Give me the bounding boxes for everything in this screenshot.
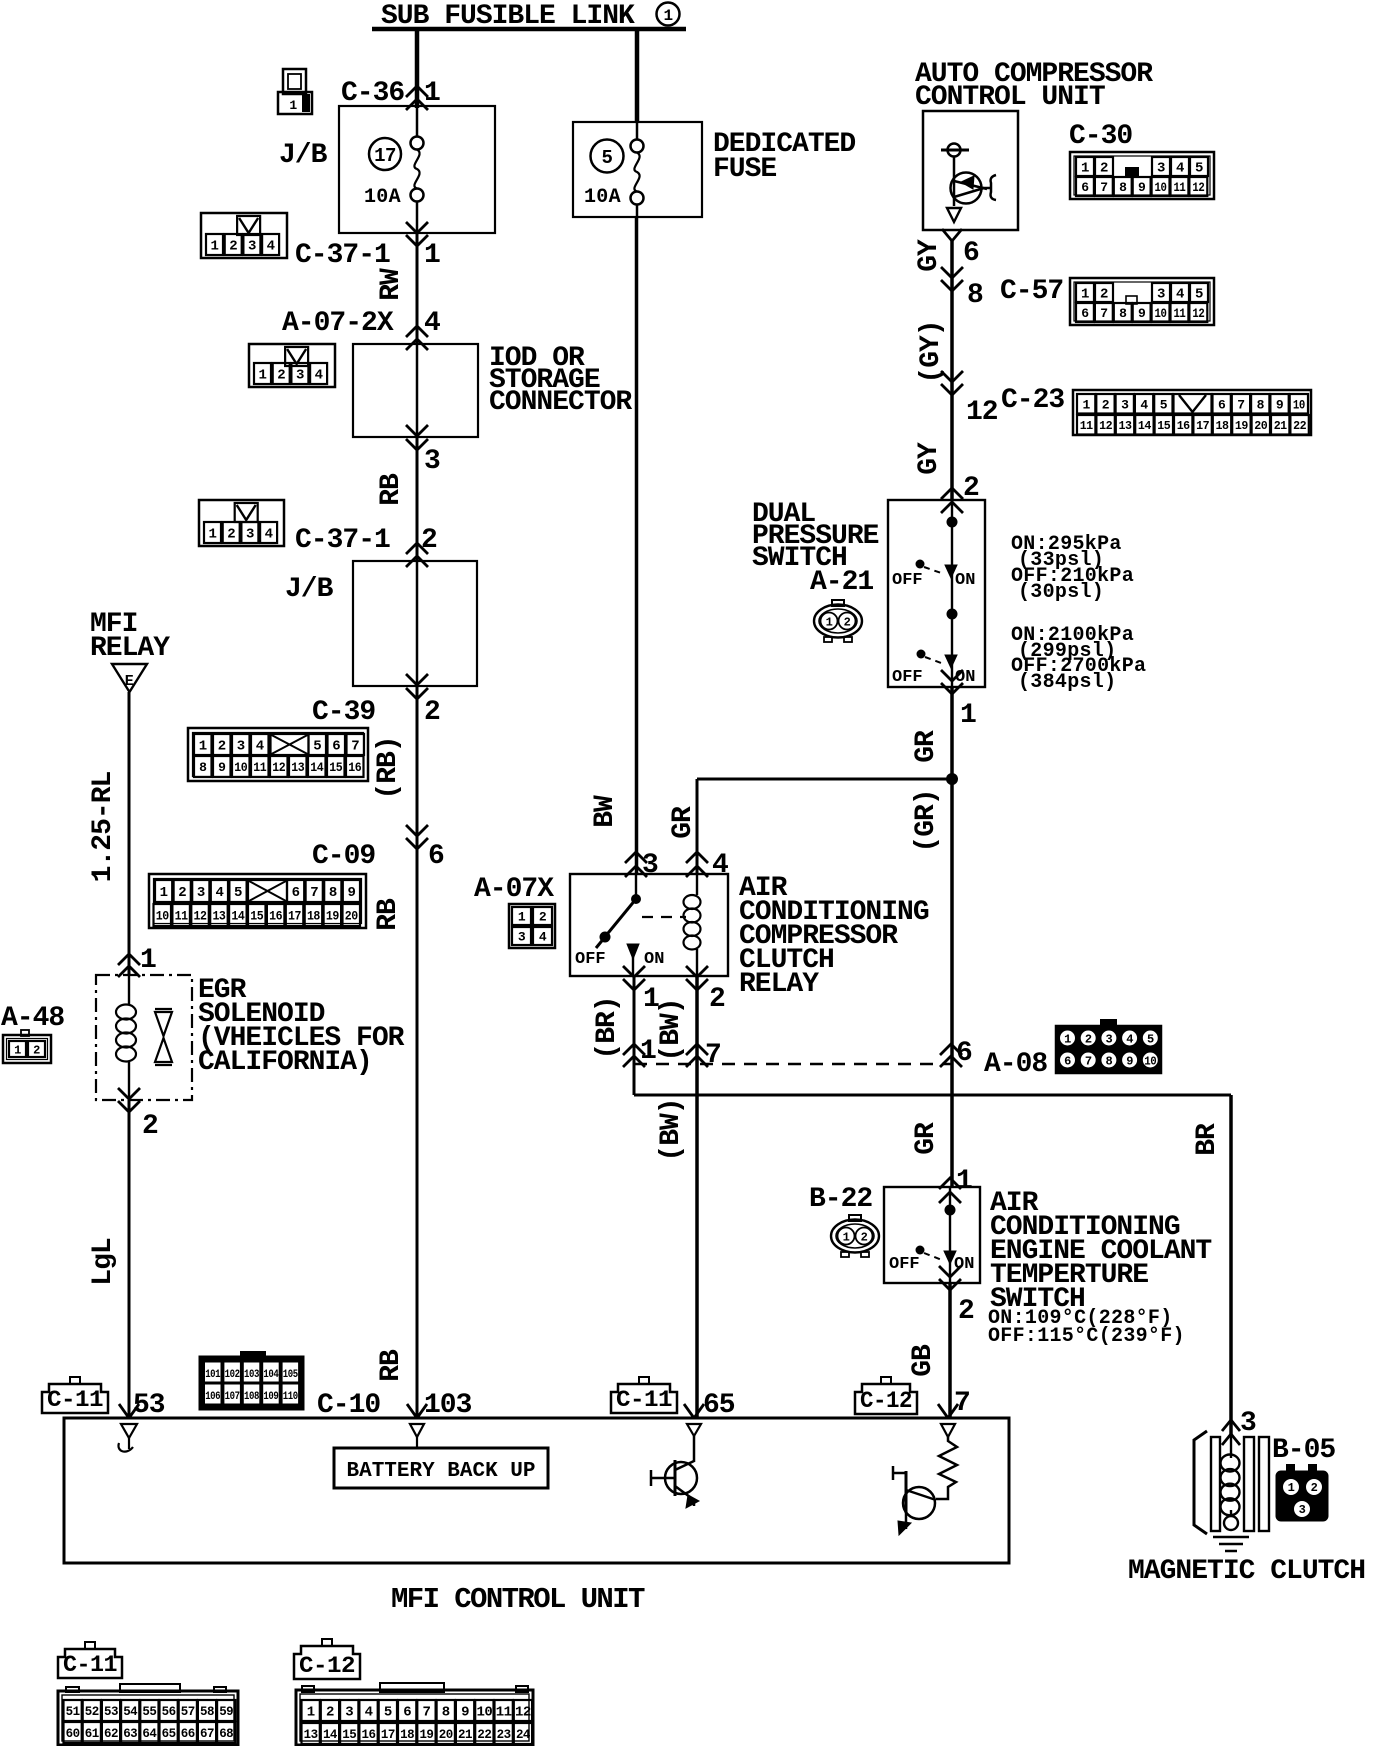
ground symbol below pin 53	[121, 1424, 137, 1438]
svg-text:103: 103	[244, 1369, 260, 1381]
svg-text:2: 2	[178, 885, 186, 901]
svg-text:C-12: C-12	[860, 1388, 912, 1414]
svg-text:1: 1	[518, 910, 526, 925]
circled 1 marker	[657, 3, 680, 26]
svg-text:OFF: OFF	[892, 668, 923, 687]
engine coolant temperature switch box	[884, 1187, 980, 1283]
B-22 pin 1 chevrons	[939, 1178, 961, 1189]
dedicated fuse box	[573, 122, 702, 217]
svg-text:ON: ON	[955, 571, 975, 590]
svg-text:A-08: A-08	[984, 1049, 1047, 1080]
svg-text:14: 14	[231, 909, 245, 924]
svg-text:1: 1	[1064, 1033, 1071, 1047]
svg-text:OFF: OFF	[889, 1255, 920, 1274]
svg-text:(30psl): (30psl)	[1018, 581, 1104, 604]
svg-text:9: 9	[347, 885, 355, 901]
magnetic clutch bar B	[1244, 1437, 1254, 1531]
svg-text:LgL: LgL	[88, 1238, 119, 1286]
svg-text:1: 1	[424, 78, 440, 109]
svg-text:(BR): (BR)	[592, 996, 623, 1059]
svg-text:1: 1	[259, 368, 267, 384]
svg-text:1: 1	[663, 7, 672, 25]
svg-text:7: 7	[954, 1388, 970, 1419]
svg-text:17: 17	[381, 1727, 395, 1742]
EGR solenoid coil	[128, 975, 130, 1005]
svg-text:C-12: C-12	[299, 1653, 355, 1679]
svg-text:19: 19	[419, 1727, 434, 1742]
svg-text:9: 9	[1126, 1055, 1133, 1069]
svg-text:GR: GR	[911, 1122, 942, 1155]
svg-text:6: 6	[292, 885, 300, 901]
svg-text:C-37-1: C-37-1	[295, 525, 390, 556]
EGR valve symbol	[155, 1008, 172, 1010]
connector C-12 bottom	[296, 1690, 533, 1745]
svg-text:19: 19	[1235, 419, 1248, 433]
svg-text:(BW): (BW)	[656, 998, 687, 1061]
connector B-22 oval icon	[849, 1215, 861, 1221]
svg-text:(RB): (RB)	[373, 736, 404, 799]
connector A-07X icon 2x2	[509, 904, 555, 948]
svg-text:BW: BW	[590, 795, 621, 828]
J/B2 exit pin 2 chevrons	[406, 688, 428, 699]
connector C-37-1 second icon	[199, 500, 284, 546]
svg-text:13: 13	[212, 909, 226, 924]
svg-text:4: 4	[315, 368, 323, 384]
svg-text:GR: GR	[668, 806, 699, 839]
svg-text:MAGNETIC CLUTCH: MAGNETIC CLUTCH	[1128, 1556, 1365, 1587]
svg-text:11: 11	[253, 760, 267, 775]
svg-text:8: 8	[442, 1705, 450, 1721]
svg-text:5: 5	[1160, 397, 1168, 412]
svg-text:8: 8	[1106, 1055, 1113, 1069]
wire: sub fusible link bus	[372, 27, 686, 32]
svg-text:12: 12	[515, 1705, 531, 1721]
svg-text:11: 11	[1173, 180, 1186, 195]
svg-text:57: 57	[181, 1704, 195, 1719]
svg-text:8: 8	[199, 760, 207, 775]
svg-text:1: 1	[960, 700, 976, 731]
svg-text:2: 2	[1311, 1481, 1318, 1495]
svg-text:15: 15	[329, 760, 343, 775]
svg-text:A-07X: A-07X	[474, 874, 554, 905]
svg-text:J/B: J/B	[279, 140, 328, 171]
svg-text:21: 21	[458, 1727, 473, 1742]
svg-text:GB: GB	[908, 1344, 939, 1377]
svg-text:3: 3	[1157, 161, 1165, 177]
svg-text:104: 104	[263, 1369, 279, 1381]
svg-text:56: 56	[162, 1704, 177, 1719]
svg-text:2: 2	[421, 525, 437, 556]
svg-text:61: 61	[85, 1726, 100, 1741]
MFI control unit box	[64, 1418, 1009, 1563]
svg-text:12: 12	[194, 909, 208, 924]
svg-text:RB: RB	[376, 1349, 407, 1382]
connector C-10 pin 103	[407, 1404, 417, 1418]
svg-text:1: 1	[1082, 397, 1090, 412]
B-22 switch arm	[916, 1246, 925, 1255]
svg-text:5: 5	[1195, 161, 1203, 177]
connector C-11 icon at pin 65	[611, 1384, 677, 1413]
svg-text:12: 12	[272, 760, 286, 775]
svg-text:7: 7	[705, 1040, 721, 1071]
pin 7 triangle	[941, 1424, 955, 1437]
connector A-07-2X pin 4	[406, 326, 428, 337]
fuse F17 symbol	[411, 137, 424, 150]
A-21 exit pin 1 chevrons	[941, 683, 963, 694]
dual pressure switch pin 2 chevrons	[941, 488, 963, 499]
svg-text:1: 1	[209, 527, 217, 543]
fusible link icon	[283, 69, 306, 94]
wire BW/BR junction horizontal	[634, 1094, 1231, 1097]
svg-text:10A: 10A	[364, 186, 401, 209]
transistor at pin 7	[903, 1487, 935, 1519]
resistor at pin 7	[939, 1437, 957, 1492]
A-07X pin 3 chevrons	[625, 852, 647, 863]
svg-text:4: 4	[1126, 1033, 1133, 1047]
MFI pin 65	[684, 1404, 694, 1418]
svg-text:101: 101	[205, 1369, 221, 1381]
svg-text:20: 20	[345, 909, 359, 924]
wire dedicated fuse down to A-07X pin 3	[636, 204, 639, 217]
svg-text:4: 4	[265, 527, 273, 543]
svg-text:18: 18	[1216, 419, 1229, 433]
svg-text:3: 3	[296, 368, 304, 384]
svg-text:16: 16	[269, 909, 283, 924]
svg-text:7: 7	[422, 1705, 430, 1721]
svg-text:10: 10	[156, 909, 170, 924]
svg-text:C-11: C-11	[616, 1387, 672, 1413]
svg-text:OFF:115°C(239°F): OFF:115°C(239°F)	[988, 1325, 1185, 1348]
svg-text:1: 1	[199, 739, 207, 755]
svg-text:C-39: C-39	[312, 697, 375, 728]
connector C-36 pin 1 chevrons	[406, 86, 428, 97]
svg-text:A-07-2X: A-07-2X	[282, 308, 394, 339]
svg-text:1: 1	[211, 239, 219, 255]
svg-text:ON: ON	[955, 668, 975, 687]
A-08 chevrons pin 1	[623, 1044, 645, 1055]
EGR solenoid box dashed	[96, 975, 192, 1100]
svg-text:8: 8	[1257, 397, 1265, 412]
svg-text:10: 10	[476, 1705, 492, 1721]
wire bus to dedicated fuse	[635, 29, 640, 122]
svg-text:5: 5	[1195, 287, 1203, 303]
svg-text:5: 5	[1147, 1033, 1154, 1047]
svg-text:7: 7	[1085, 1055, 1092, 1069]
svg-text:3: 3	[248, 239, 256, 255]
magnetic clutch ground	[1213, 1536, 1249, 1539]
wire J/B1 fuse to C-37-1	[416, 201, 419, 233]
relay coil	[696, 874, 698, 895]
svg-text:18: 18	[307, 909, 321, 924]
connector A-21 oval icon	[832, 600, 844, 606]
MFI pin 53	[119, 1404, 129, 1418]
connector C-11 bottom	[58, 1691, 238, 1745]
A-21 switch 1 (low pressure)	[916, 560, 925, 569]
svg-text:RW: RW	[376, 268, 407, 301]
svg-text:1: 1	[140, 945, 156, 976]
svg-text:59: 59	[219, 1704, 234, 1719]
svg-text:24: 24	[516, 1727, 531, 1742]
auto compressor control unit box	[923, 111, 1018, 230]
svg-text:17: 17	[1196, 419, 1209, 433]
svg-text:16: 16	[362, 1727, 377, 1742]
svg-text:1: 1	[289, 98, 297, 113]
junction dot GR node	[946, 773, 958, 785]
svg-text:10: 10	[1155, 306, 1168, 321]
svg-text:103: 103	[424, 1390, 472, 1421]
svg-text:2: 2	[229, 239, 237, 255]
svg-text:4: 4	[1176, 287, 1184, 303]
svg-text:(384psl): (384psl)	[1018, 671, 1116, 694]
svg-text:10: 10	[1293, 397, 1306, 412]
A-08 chevrons pin 6	[940, 1044, 962, 1055]
svg-text:108: 108	[244, 1391, 260, 1403]
connector C-37-1 pin 1 chevrons	[406, 235, 428, 246]
svg-text:19: 19	[326, 909, 340, 924]
svg-text:53: 53	[133, 1390, 165, 1421]
svg-text:6: 6	[403, 1705, 411, 1721]
svg-text:12: 12	[1192, 180, 1205, 195]
connector C-37-1 icon	[201, 213, 287, 258]
svg-text:6: 6	[1081, 306, 1089, 321]
svg-text:12: 12	[1192, 306, 1205, 321]
svg-text:55: 55	[142, 1704, 157, 1719]
IOD exit pin 3 chevrons	[406, 439, 428, 450]
svg-text:68: 68	[219, 1726, 234, 1741]
svg-text:5: 5	[602, 147, 613, 169]
svg-text:12: 12	[1099, 419, 1112, 433]
svg-text:OFF: OFF	[892, 571, 923, 590]
svg-text:1: 1	[1081, 161, 1089, 177]
svg-text:22: 22	[477, 1727, 492, 1742]
svg-text:B-05: B-05	[1272, 1435, 1335, 1466]
svg-text:23: 23	[497, 1727, 512, 1742]
svg-text:4: 4	[365, 1705, 373, 1721]
svg-text:2: 2	[142, 1111, 158, 1142]
relay switch	[635, 874, 637, 899]
svg-text:4: 4	[539, 930, 547, 945]
svg-text:2: 2	[227, 527, 235, 543]
wire MFI relay down	[128, 692, 131, 975]
svg-text:4: 4	[712, 850, 728, 881]
svg-text:64: 64	[142, 1726, 157, 1741]
svg-text:3: 3	[1240, 1408, 1256, 1439]
svg-text:12: 12	[966, 397, 998, 428]
A-07X pin 4 chevrons	[686, 852, 708, 863]
junction block J/B box 1	[339, 106, 495, 233]
svg-text:15: 15	[342, 1727, 357, 1742]
connector A-48 icon	[3, 1035, 51, 1063]
svg-text:9: 9	[1276, 397, 1284, 412]
svg-text:53: 53	[104, 1704, 119, 1719]
svg-text:1: 1	[843, 1231, 850, 1245]
svg-text:1: 1	[160, 885, 168, 901]
svg-text:6: 6	[956, 1038, 972, 1069]
svg-text:C-10: C-10	[317, 1390, 380, 1421]
connector C-11 icon at pin 53	[42, 1384, 108, 1413]
control unit pin 6	[942, 229, 952, 241]
connector C-11 bottom label icon	[58, 1649, 122, 1678]
svg-text:3: 3	[345, 1705, 353, 1721]
svg-text:RB: RB	[373, 898, 404, 931]
svg-text:7: 7	[310, 885, 318, 901]
IOD or storage connector box	[353, 344, 478, 437]
svg-text:15: 15	[250, 909, 264, 924]
connector C-39	[188, 728, 368, 781]
svg-text:11: 11	[175, 909, 189, 924]
svg-text:13: 13	[304, 1727, 319, 1742]
svg-text:4: 4	[256, 739, 264, 755]
svg-text:11: 11	[1080, 419, 1093, 433]
svg-text:7: 7	[351, 739, 359, 755]
svg-text:MFI CONTROL UNIT: MFI CONTROL UNIT	[391, 1583, 645, 1616]
magnetic clutch coil	[1221, 1455, 1240, 1472]
svg-text:10: 10	[1155, 180, 1168, 195]
svg-text:6: 6	[1081, 180, 1089, 195]
connector C-12 bottom label icon	[294, 1646, 360, 1679]
svg-text:8: 8	[329, 885, 337, 901]
magnetic clutch coil terminal circle	[1224, 1516, 1238, 1530]
A-21 junction dot mid	[947, 609, 958, 620]
svg-text:CONTROL UNIT: CONTROL UNIT	[915, 82, 1105, 113]
connector C-10	[200, 1357, 303, 1409]
svg-text:2: 2	[33, 1043, 40, 1057]
svg-text:BR: BR	[1192, 1123, 1223, 1156]
svg-text:58: 58	[200, 1704, 215, 1719]
svg-text:4: 4	[267, 239, 275, 255]
svg-text:102: 102	[225, 1369, 240, 1381]
svg-text:21: 21	[1274, 419, 1287, 433]
A-08 chevrons pin 7	[686, 1044, 708, 1055]
svg-text:8: 8	[1119, 306, 1127, 321]
svg-text:RELAY: RELAY	[90, 633, 170, 664]
svg-text:1: 1	[1081, 287, 1089, 303]
pin 65 triangle	[687, 1424, 701, 1436]
svg-text:60: 60	[66, 1726, 81, 1741]
C-09 pin 6 chevrons	[406, 838, 428, 849]
svg-text:13: 13	[1119, 419, 1132, 433]
svg-text:2: 2	[709, 984, 725, 1015]
svg-text:9: 9	[461, 1705, 469, 1721]
svg-text:OFF: OFF	[575, 950, 606, 969]
svg-text:C-36: C-36	[341, 78, 404, 109]
svg-text:65: 65	[162, 1726, 177, 1741]
transistor icon inside control unit	[948, 144, 961, 157]
svg-text:C-11: C-11	[63, 1652, 117, 1678]
svg-text:106: 106	[205, 1391, 220, 1403]
svg-text:7: 7	[1100, 306, 1107, 321]
wire branch to compressor clutch relay coil	[697, 778, 952, 781]
connector C-30	[1070, 152, 1214, 199]
svg-text:2: 2	[844, 616, 851, 630]
svg-text:3: 3	[246, 527, 254, 543]
B-22 exit pin 2 chevrons	[939, 1279, 961, 1290]
svg-text:5: 5	[384, 1705, 392, 1721]
pin 103 triangle	[410, 1424, 424, 1437]
battery back up box	[334, 1448, 548, 1488]
connector C-23 pin 12 chevrons	[941, 384, 963, 395]
svg-text:1: 1	[1288, 1481, 1295, 1495]
svg-text:8: 8	[1119, 180, 1127, 195]
svg-text:1: 1	[826, 616, 833, 630]
svg-text:109: 109	[263, 1391, 278, 1403]
svg-text:B-22: B-22	[809, 1184, 872, 1215]
svg-text:A-21: A-21	[810, 567, 873, 598]
svg-text:2: 2	[424, 697, 440, 728]
svg-text:C-57: C-57	[1000, 276, 1063, 307]
connector C-09	[149, 874, 366, 928]
svg-text:13: 13	[291, 760, 305, 775]
A-07X exit pins 1 and 2	[623, 979, 645, 990]
connector A-08	[1056, 1026, 1161, 1073]
svg-text:E: E	[125, 673, 134, 690]
svg-text:1: 1	[307, 1705, 315, 1721]
connector C-57 pin 8 chevrons	[941, 280, 963, 291]
svg-text:ON: ON	[644, 950, 664, 969]
transistor at pin 65	[665, 1462, 697, 1494]
svg-text:4: 4	[215, 885, 223, 901]
connector A-07-2X icon	[249, 344, 335, 387]
dual pressure switch A-21 box	[888, 500, 985, 687]
svg-text:18: 18	[400, 1727, 415, 1742]
svg-text:GR: GR	[911, 730, 942, 763]
svg-text:RB: RB	[376, 473, 407, 506]
svg-text:7: 7	[1100, 180, 1107, 195]
svg-text:C-30: C-30	[1069, 121, 1132, 152]
svg-text:62: 62	[104, 1726, 119, 1741]
svg-text:2: 2	[861, 1231, 868, 1245]
connector B-05 icon	[1277, 1472, 1327, 1520]
svg-text:C-09: C-09	[312, 841, 375, 872]
svg-text:14: 14	[323, 1727, 338, 1742]
svg-text:3: 3	[518, 930, 526, 945]
svg-text:BATTERY BACK UP: BATTERY BACK UP	[346, 1460, 535, 1483]
svg-text:14: 14	[1138, 419, 1151, 433]
svg-text:51: 51	[66, 1704, 81, 1719]
svg-text:2: 2	[958, 1296, 974, 1327]
svg-text:16: 16	[1177, 419, 1190, 433]
svg-text:6: 6	[332, 739, 340, 755]
svg-text:65: 65	[703, 1390, 735, 1421]
svg-text:C-23: C-23	[1001, 385, 1064, 416]
B-22 junction dot	[945, 1205, 956, 1216]
svg-text:2: 2	[539, 910, 547, 925]
svg-text:10A: 10A	[584, 186, 621, 209]
svg-text:6: 6	[1218, 397, 1226, 412]
svg-text:14: 14	[310, 760, 324, 775]
magnetic clutch left bracket	[1194, 1431, 1207, 1534]
svg-text:4: 4	[1176, 161, 1184, 177]
svg-text:9: 9	[218, 760, 226, 775]
svg-text:CONNECTOR: CONNECTOR	[489, 387, 632, 418]
svg-text:6: 6	[1064, 1055, 1071, 1069]
svg-text:CALIFORNIA): CALIFORNIA)	[198, 1047, 372, 1078]
svg-text:2: 2	[1100, 161, 1108, 177]
svg-text:J/B: J/B	[285, 574, 334, 605]
fuse 5 circled number	[591, 140, 624, 173]
svg-text:11: 11	[496, 1705, 512, 1721]
connector C-23	[1073, 390, 1311, 435]
svg-text:54: 54	[123, 1704, 138, 1719]
svg-text:A-48: A-48	[1, 1003, 64, 1034]
svg-text:17: 17	[288, 909, 301, 924]
svg-text:FUSE: FUSE	[713, 154, 776, 185]
svg-text:C-37-1: C-37-1	[295, 240, 390, 271]
svg-text:10: 10	[234, 760, 248, 775]
dashed wire to A-08	[634, 1063, 951, 1066]
EGR pin 1 chevrons	[118, 954, 140, 965]
svg-text:2: 2	[277, 368, 285, 384]
